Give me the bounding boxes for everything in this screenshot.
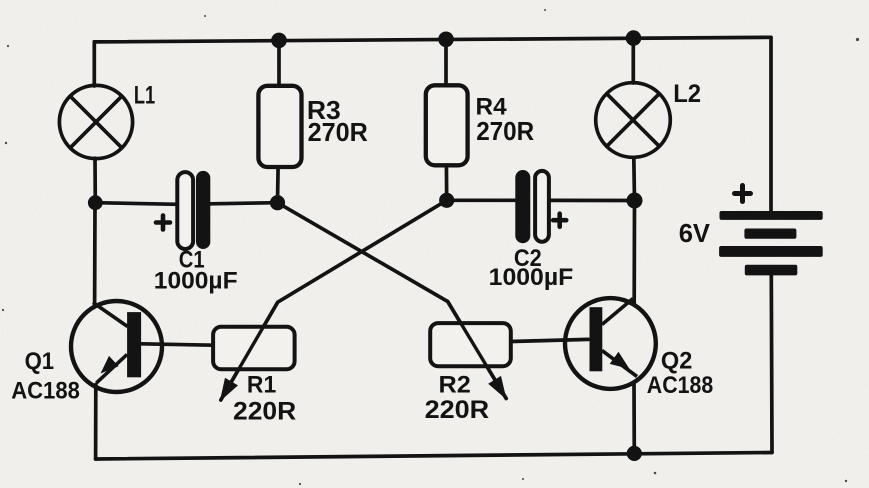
svg-text:1000µF: 1000µF <box>154 268 238 295</box>
wire C2 to node D <box>549 199 635 203</box>
node B dot <box>270 195 285 210</box>
resistor R3 body <box>258 86 301 167</box>
wire node A to Q1 collector <box>93 203 97 307</box>
battery plate 1 long <box>720 211 823 220</box>
wire top rail <box>94 37 771 42</box>
node dot top rail 3 <box>626 30 642 46</box>
wire C1 to node B <box>210 203 278 204</box>
svg-text:Q2: Q2 <box>661 347 692 374</box>
svg-text:R1: R1 <box>247 371 276 398</box>
svg-text:AC188: AC188 <box>647 372 713 399</box>
wire rail to R3 <box>277 40 281 86</box>
battery plus sign <box>735 186 751 202</box>
wire rail to L2 <box>631 38 635 83</box>
capacitor C2 plate - (black) <box>515 170 530 243</box>
C1 plus sign <box>156 216 170 230</box>
wire Q1 emitter to bottom rail <box>94 385 98 460</box>
resistor R2 body <box>430 323 511 366</box>
transistor Q2 <box>565 298 656 389</box>
wire Q1 base to R1 <box>141 344 213 345</box>
capacitor C2 plate + (white) <box>535 171 549 242</box>
wire rail to battery + <box>769 37 773 211</box>
resistor R4 body <box>426 85 468 165</box>
svg-text:1000µF: 1000µF <box>489 264 574 291</box>
battery plate 4 short <box>745 265 798 276</box>
svg-text:AC188: AC188 <box>11 378 80 405</box>
lamp L1 <box>59 85 132 158</box>
arrowhead on R1 diagonal <box>220 378 238 402</box>
svg-text:L1: L1 <box>134 81 155 109</box>
wire R2 to Q2 base <box>511 339 589 341</box>
node dot top rail 1 <box>271 33 287 49</box>
arrowhead on R2 diagonal <box>488 376 506 400</box>
wire left drop to L1 <box>92 42 96 86</box>
wire L2 bottom to node D <box>632 157 636 200</box>
svg-text:220R: 220R <box>233 398 296 426</box>
wire node A to C1 <box>95 203 177 205</box>
node C dot <box>439 193 454 208</box>
svg-text:Q1: Q1 <box>25 348 54 375</box>
svg-text:L2: L2 <box>673 80 701 108</box>
capacitor C1 plate - (black) <box>196 171 210 249</box>
battery plate 2 short <box>744 229 796 239</box>
node dot bottom rail <box>627 446 642 461</box>
wire battery - to bottom rail <box>769 275 773 453</box>
wire Q2 emitter to bottom rail <box>632 383 636 454</box>
wire L1 bottom to node A <box>93 158 97 203</box>
wire node C to C2 <box>447 198 516 202</box>
wire redraw diagonal over R2 <box>448 302 507 399</box>
svg-text:220R: 220R <box>425 396 490 424</box>
wire R3 to node B <box>276 167 280 203</box>
node dot top rail 2 <box>438 32 454 48</box>
node D dot <box>627 193 643 209</box>
transistor Q1 <box>71 301 162 392</box>
svg-text:R2: R2 <box>439 371 471 398</box>
wire cross-coupling diagonal node B to R2 <box>278 203 507 399</box>
C2 plus sign <box>553 214 566 227</box>
wire node D to Q2 collector <box>632 201 636 306</box>
wire rail to R4 <box>444 39 448 85</box>
node A dot <box>88 195 103 210</box>
lamp L2 <box>596 83 671 158</box>
svg-text:6V: 6V <box>679 218 711 248</box>
svg-text:270R: 270R <box>308 117 368 147</box>
capacitor C1 plate + (white) <box>177 172 193 249</box>
wire bottom rail <box>96 453 772 460</box>
resistor R1 body <box>213 327 295 369</box>
wire redraw diagonal over R1 <box>221 302 278 400</box>
svg-text:270R: 270R <box>476 116 534 146</box>
wire cross-coupling diagonal node C to R1 <box>221 200 447 400</box>
wire R4 to node C <box>445 165 449 200</box>
battery plate 3 long <box>719 246 823 257</box>
